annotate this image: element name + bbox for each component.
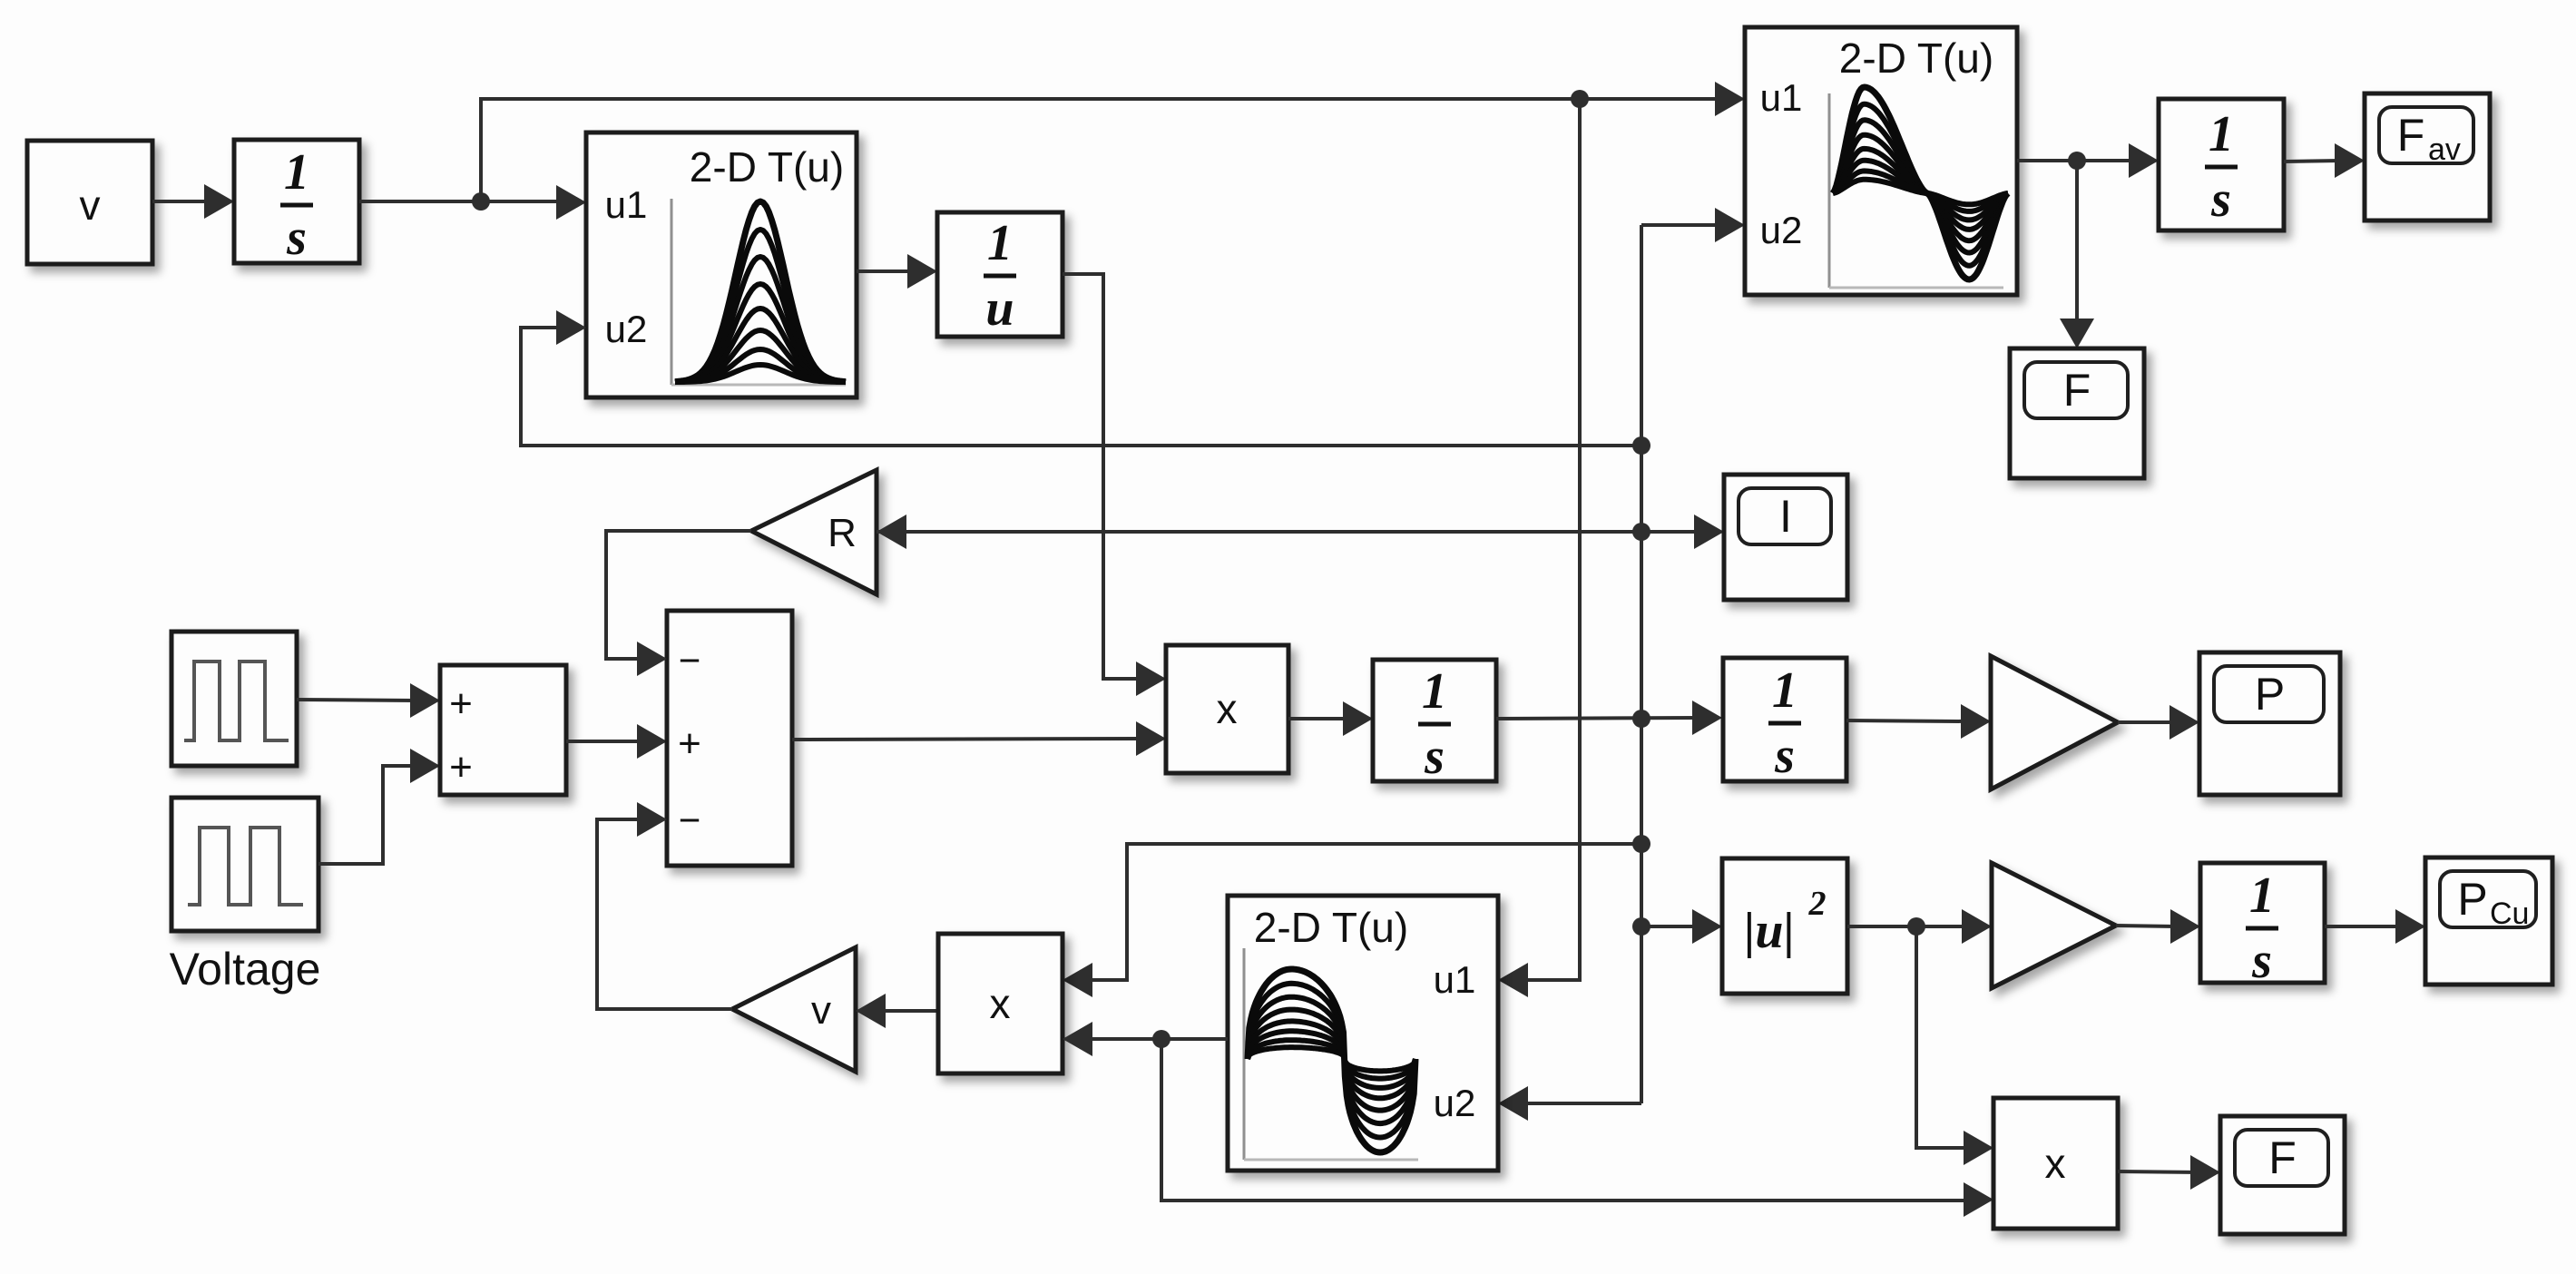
wire product X3 output to gain v	[879, 1009, 938, 1013]
svg-text:F: F	[2063, 365, 2091, 416]
wire S2 output to product X1	[792, 739, 1142, 740]
pulse generator Voltage2	[171, 798, 318, 931]
wire Int3 output to Fav display	[2284, 161, 2341, 162]
product block X1	[1166, 645, 1288, 773]
svg-text:u2: u2	[605, 308, 648, 350]
svg-text:1: 1	[1422, 663, 1447, 720]
wire Int2 output (current) to node B3 and Int3	[1496, 718, 1699, 719]
integrator 1/s block Int3	[2159, 99, 2284, 230]
gain v triangle	[732, 947, 856, 1072]
svg-text:x: x	[2045, 1140, 2066, 1187]
node A1 junction	[472, 192, 490, 211]
svg-text:v: v	[80, 181, 101, 229]
svg-text:+: +	[678, 721, 701, 766]
node B5 junction to abs-square	[1632, 917, 1650, 936]
wire Int5 output to PCu display	[2325, 925, 2402, 928]
wire S1 output to sum S2	[566, 740, 643, 743]
node C1 junction force signal	[2068, 152, 2086, 170]
node B2 junction current to I display	[1632, 523, 1650, 541]
display block Fav	[2365, 93, 2490, 220]
node A2 junction on flux bus	[1571, 90, 1589, 108]
wire gain R output to S2 minus input	[606, 531, 751, 659]
svg-text:u1: u1	[1760, 76, 1803, 119]
wire line A flux down to LUT3 u1	[1522, 99, 1580, 980]
svg-text:s: s	[286, 210, 307, 266]
sum block S2 (- + -)	[667, 611, 792, 866]
wire line B top to LUT2 u2	[1641, 223, 1721, 227]
svg-text:1: 1	[1772, 662, 1797, 719]
wire node C1 down to F display	[2075, 161, 2079, 319]
svg-text:Cu: Cu	[2490, 897, 2529, 931]
gain G2 triangle	[1992, 863, 2116, 988]
wire node D1 down to product X2	[1916, 926, 1970, 1148]
svg-text:2-D T(u): 2-D T(u)	[1839, 34, 1993, 82]
svg-text:2: 2	[1808, 885, 1827, 923]
svg-text:P: P	[2457, 874, 2487, 925]
wire node E1 down and right to product X2	[1161, 1039, 1970, 1200]
wire gain G2 to Int5	[2116, 926, 2177, 926]
2-D lookup table LUT1 (magnetization curves)	[586, 132, 857, 397]
wire gain G1 to P display	[2118, 720, 2176, 724]
svg-text:I: I	[1779, 491, 1792, 542]
wire node B4 to product X3 first input	[1086, 844, 1641, 980]
wire Int1 output to node A1	[359, 200, 564, 203]
svg-text:u2: u2	[1760, 209, 1803, 251]
svg-text:+: +	[449, 681, 473, 726]
svg-text:s: s	[2210, 171, 2231, 228]
svg-text:x: x	[1217, 685, 1238, 732]
svg-text:u1: u1	[1434, 958, 1476, 1001]
wire node A1 to LUT1 u1	[556, 185, 586, 220]
svg-text:+: +	[449, 745, 473, 789]
wire LUT2 output to Int3	[2017, 159, 2135, 162]
svg-text:−: −	[679, 639, 701, 681]
integrator 1/s block Int2	[1373, 660, 1496, 781]
svg-text:F: F	[2268, 1132, 2297, 1183]
2-D lookup table LUT2 (force curves)	[1745, 27, 2017, 295]
svg-text:1: 1	[987, 215, 1013, 271]
wire node B5 to abs-square block	[1641, 925, 1699, 928]
wire abs-square output to gain G2	[1847, 925, 1968, 928]
product block X2	[1993, 1098, 2118, 1229]
svg-text:x: x	[990, 980, 1011, 1027]
svg-text:F: F	[2397, 110, 2425, 161]
wire LUT3 output to product X3 second input	[1086, 1037, 1228, 1041]
svg-text:R: R	[828, 511, 857, 555]
svg-text:u2: u2	[1434, 1082, 1476, 1124]
product block X3	[938, 934, 1063, 1073]
wire gain v output to S2 bottom minus	[597, 819, 732, 1009]
svg-text:u: u	[985, 280, 1014, 337]
svg-text:1: 1	[2249, 867, 2275, 924]
svg-text:2-D T(u): 2-D T(u)	[1254, 904, 1408, 951]
svg-text:Voltage: Voltage	[170, 944, 321, 995]
integrator 1/s block Int5	[2200, 863, 2325, 983]
svg-text:1: 1	[284, 144, 309, 201]
2-D lookup table LUT3 (flux curves)	[1228, 896, 1498, 1171]
wire Int4 output to gain G1	[1846, 720, 1967, 721]
node B3 junction current bus	[1632, 710, 1650, 728]
wire flux bus up and right to LUT2 u1	[481, 99, 1723, 201]
svg-text:v: v	[811, 988, 831, 1033]
pulse generator Voltage1	[171, 632, 297, 766]
display block I (current)	[1724, 475, 1847, 600]
wire X2 output to F2 display	[2118, 1171, 2197, 1172]
source block v	[27, 141, 152, 264]
wire 1/u output down to product X1	[1063, 274, 1142, 679]
node B1 junction to LUT1 u2 loop	[1632, 436, 1650, 455]
display block PCu (copper loss)	[2425, 857, 2552, 985]
svg-text:|u|: |u|	[1744, 903, 1795, 959]
display block F2 (force)	[2220, 1116, 2345, 1234]
svg-text:u1: u1	[605, 183, 648, 226]
wire line B bottom to LUT3 u2	[1522, 1102, 1641, 1105]
node B4 junction to X3 branch	[1632, 835, 1650, 853]
wire v to integrator	[152, 200, 211, 203]
wire LUT1 u2 feedback loop	[521, 328, 1641, 446]
wire current bus to gain R input and I display	[877, 530, 1700, 534]
svg-text:−: −	[679, 799, 701, 841]
display block F (force)	[2010, 348, 2144, 478]
reciprocal block 1/u	[937, 212, 1063, 337]
svg-text:P: P	[2255, 669, 2285, 720]
svg-text:s: s	[1424, 729, 1445, 785]
wire X1 output to integrator Int2	[1288, 717, 1349, 720]
wire LUT1 output to reciprocal block	[857, 269, 914, 273]
node D1 junction after abs-square	[1907, 917, 1925, 936]
current bus line B vertical	[1640, 225, 1643, 1103]
integrator 1/s block Int4	[1723, 658, 1846, 781]
svg-text:1: 1	[2209, 106, 2234, 162]
gain G1 triangle	[1991, 656, 2118, 789]
svg-text:av: av	[2428, 132, 2461, 167]
gain R triangle	[751, 470, 877, 594]
wire Voltage2 to sum S1	[318, 766, 416, 864]
node E1 junction flux branch	[1152, 1030, 1170, 1048]
svg-text:s: s	[2251, 933, 2272, 989]
abs-square block |u|^2	[1722, 858, 1847, 994]
integrator 1/s block Int1	[234, 140, 359, 263]
svg-text:s: s	[1774, 728, 1795, 784]
wire Voltage1 to sum S1	[297, 700, 416, 701]
sum block S1 (+ +)	[440, 665, 566, 795]
svg-text:2-D T(u): 2-D T(u)	[690, 143, 844, 191]
display block P (power)	[2199, 652, 2340, 795]
